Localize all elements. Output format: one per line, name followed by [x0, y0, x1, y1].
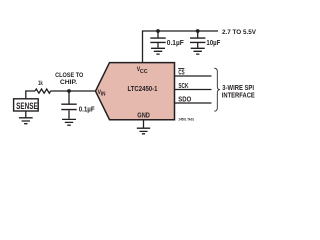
svg-text:CC: CC: [140, 69, 148, 75]
svg-text:SDO: SDO: [178, 94, 191, 103]
wire SENSE to resistor: [26, 91, 35, 99]
svg-text:2.7 TO 5.5V: 2.7 TO 5.5V: [222, 29, 257, 36]
svg-text:SCK: SCK: [178, 81, 189, 90]
pin wire SCK: [175, 89, 212, 91]
capacitor C2 plates: [190, 38, 205, 42]
brace for SPI interface: [214, 68, 220, 111]
svg-text:LTC2450-1: LTC2450-1: [128, 84, 158, 93]
svg-text:IN: IN: [101, 92, 106, 98]
power rail 2.7 TO 5.5V: [143, 31, 219, 63]
svg-text:10µF: 10µF: [206, 40, 221, 47]
wire resistor to VIN: [51, 90, 96, 92]
capacitor C2 bottom lead: [197, 43, 199, 48]
ground under C1: [151, 48, 165, 54]
SENSE box: [14, 99, 39, 111]
IC U1 LTC2450-1 ADC body: [96, 63, 175, 120]
ground under SENSE: [19, 111, 33, 124]
node junction on rail 2: [196, 29, 200, 33]
svg-text:24501 TA01: 24501 TA01: [179, 117, 195, 122]
capacitor C3 0.1uF lead: [68, 91, 70, 104]
svg-text:GND: GND: [137, 113, 150, 120]
GND pin wire: [143, 120, 145, 128]
svg-text:0.1µF: 0.1µF: [167, 40, 185, 47]
pin wire CS: [175, 75, 212, 77]
ground under chip: [137, 128, 150, 134]
node junction on rail: [156, 29, 160, 33]
svg-text:CHIP.: CHIP.: [60, 79, 77, 86]
svg-text:3-WIRE SPI: 3-WIRE SPI: [222, 85, 254, 92]
capacitor C1 0.1uF lead: [157, 31, 159, 38]
ground under C2: [191, 48, 205, 54]
svg-text:0.1µF: 0.1µF: [79, 107, 96, 114]
capacitor C3 plates: [61, 104, 76, 109]
ground under C3: [62, 119, 76, 125]
resistor R1 1k: [35, 89, 51, 93]
svg-text:1k: 1k: [38, 80, 43, 87]
capacitor C1 bottom lead: [157, 43, 159, 48]
svg-text:SENSE: SENSE: [16, 101, 38, 111]
pin wire SDO: [175, 102, 212, 104]
capacitor C3 bottom lead: [68, 110, 70, 119]
capacitor C2 10uF lead: [197, 31, 199, 38]
node junction at filter: [67, 89, 71, 93]
svg-text:INTERFACE: INTERFACE: [222, 93, 255, 100]
capacitor C1 plates: [150, 38, 165, 42]
